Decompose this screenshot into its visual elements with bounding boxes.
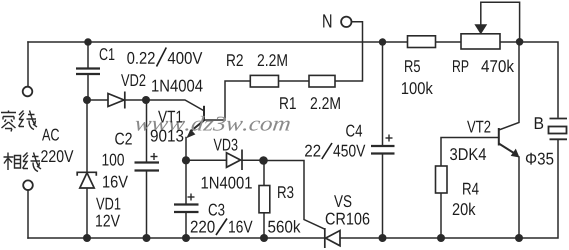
value 20k <box>453 203 476 215</box>
node C3 bottom <box>182 234 190 242</box>
wire C2 to bottom rail <box>146 171 148 239</box>
node C1 top rail <box>84 38 92 46</box>
value 0.22 of C1 <box>127 52 154 64</box>
value 9013 <box>151 130 184 142</box>
wire C3 to bottom rail <box>185 212 187 238</box>
wire node B to VT1 base <box>146 100 204 111</box>
node VT1 emitter VD3 <box>182 156 190 164</box>
wire VT2 emitter to bottom rail <box>518 157 520 238</box>
watermark www.dz3w.com <box>135 116 291 131</box>
wire top rail <box>28 41 407 43</box>
node R3 bottom <box>260 234 268 242</box>
wire VD1 to bottom rail <box>86 189 88 239</box>
slash of 22/450V <box>322 143 332 159</box>
wire R4 to bottom rail <box>440 193 442 238</box>
value 450V of C4 <box>333 145 365 157</box>
wire VD3 node to anode <box>186 159 227 161</box>
wire neutral terminal to top rail <box>27 42 29 87</box>
value 220V <box>41 150 73 162</box>
polarity plus of C4 <box>386 135 393 142</box>
value 16V of C3 <box>229 221 252 233</box>
wire C3 branch <box>185 161 187 205</box>
wire VD2 cathode to node B <box>125 99 147 101</box>
potentiometer RP <box>461 34 500 49</box>
capacitor C1 <box>76 69 100 75</box>
label C3 <box>209 204 225 216</box>
label C2 <box>115 133 132 145</box>
capacitor C4 <box>371 146 395 154</box>
node C2 bottom <box>143 234 151 242</box>
wire R3 node down to R3 <box>263 161 265 186</box>
node VD3 R3 junction <box>259 156 268 165</box>
label VD2 <box>121 74 145 86</box>
label RP <box>453 60 468 72</box>
label C1 <box>100 48 115 60</box>
label R5 <box>405 60 420 72</box>
resistor R4 <box>436 166 448 193</box>
label R3 <box>278 186 293 198</box>
potentiometer RP wiper arrow <box>475 25 486 34</box>
wire C1 to node A <box>87 74 89 100</box>
wire node A down to VD1 <box>86 100 88 172</box>
diode VD2 <box>108 92 125 109</box>
polarity plus of C3 <box>188 194 195 201</box>
slash of 220/16V <box>216 219 227 236</box>
label VT2 <box>467 121 490 133</box>
label xiangxian phase chinese <box>4 153 42 172</box>
wire node A to VD2 anode <box>87 99 108 101</box>
node VT2 emitter bottom <box>515 234 523 242</box>
wire top rail between R5 and RP <box>436 41 462 43</box>
wire VD3 cathode to R3 node <box>242 159 264 161</box>
node RP wiper VT2 collector <box>516 38 524 46</box>
wire VT1 collector up to R2 <box>204 81 250 120</box>
value 1N4004 <box>152 80 202 92</box>
resistor R3 <box>259 186 270 213</box>
node R4 bottom <box>437 234 445 242</box>
label R2 <box>227 54 243 66</box>
wire RP wiper loop <box>481 2 520 42</box>
node C4 top rail <box>379 38 386 45</box>
value 2.2M of R2 <box>258 54 287 66</box>
value 400V of C1 <box>168 52 203 64</box>
label C4 <box>346 125 362 137</box>
node A <box>83 96 91 104</box>
wire R1 up to N terminal <box>335 22 363 81</box>
terminal circle neutral <box>23 87 33 97</box>
transistor VT1 <box>186 106 204 138</box>
terminal circle phase <box>23 180 33 190</box>
value 100 of C2 <box>103 154 124 166</box>
diode VD1 <box>77 172 96 188</box>
label N <box>323 14 331 27</box>
wire R4 to VT2 base <box>441 138 499 167</box>
wire C4 branch from top junction <box>382 42 384 146</box>
label R1 <box>280 97 296 109</box>
polarity plus of C2 <box>151 153 158 160</box>
resistor R2 <box>250 75 278 87</box>
value 1N4001 <box>202 177 252 189</box>
value 100k <box>402 82 433 94</box>
wire R3 node to VS gate <box>264 161 325 230</box>
wire R2 to R1 <box>279 80 310 82</box>
wire top rail right segment down to buzzer <box>501 42 559 117</box>
wire phase terminal to bottom rail <box>27 190 29 238</box>
label AC <box>42 129 59 141</box>
label VT1 <box>158 111 182 123</box>
label lingxian neutral chinese <box>1 111 37 132</box>
label VD1 <box>96 198 120 210</box>
thyristor VS <box>325 228 340 248</box>
capacitor C3 <box>174 205 199 213</box>
wire bottom rail left segment <box>28 237 325 239</box>
node C4 bottom <box>379 234 387 242</box>
value 220 of C3 <box>191 221 215 233</box>
value 22 of C4 <box>305 145 320 157</box>
resistor R5 <box>408 36 436 48</box>
value CR106 <box>326 213 370 225</box>
terminal circle N <box>341 17 351 27</box>
value 16V of C2 <box>103 176 128 188</box>
value 560k <box>268 220 300 232</box>
slash of 0.22/400V <box>157 48 167 67</box>
value 3DK4 <box>450 148 486 160</box>
value 470k <box>481 60 514 72</box>
wire R3 to bottom rail <box>263 213 265 238</box>
resistor R1 <box>309 75 335 87</box>
capacitor C2 <box>135 163 160 171</box>
value 12V of VD1 <box>96 215 120 227</box>
label B <box>535 117 543 129</box>
wire bottom rail right segment <box>340 140 558 238</box>
wire node B down to C2 <box>146 100 148 163</box>
value 2.2M of R1 <box>311 97 340 109</box>
label VD3 <box>214 139 238 151</box>
node VD1 bottom <box>83 234 91 242</box>
wire C4 to bottom rail <box>382 154 384 239</box>
wire C1 branch from top rail <box>87 42 89 69</box>
diode VD3 <box>227 150 243 171</box>
node B <box>142 96 150 104</box>
wire VT1 emitter down to VD3 node <box>185 138 187 161</box>
wire VT2 collector <box>499 42 519 130</box>
label VS <box>334 195 351 207</box>
buzzer B <box>549 119 568 140</box>
transistor VT2 <box>499 128 520 158</box>
label R4 <box>463 183 479 195</box>
value phi 35 <box>526 153 553 165</box>
